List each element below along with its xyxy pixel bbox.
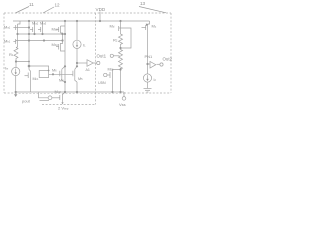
leader line label 13 bbox=[139, 7, 166, 13]
dashed box 12 bottom edge bbox=[42, 104, 96, 106]
dashed box 13 bottom edge bbox=[124, 92, 171, 94]
dashed box 11 left edge bbox=[3, 13, 5, 93]
transistor Ma2 bbox=[30, 21, 35, 33]
resistor R1 bbox=[14, 48, 18, 61]
wire Mc drain bbox=[147, 31, 149, 64]
wire node to CS bbox=[15, 62, 17, 68]
svg-text:I2: I2 bbox=[154, 78, 157, 82]
transistor Mn2 bbox=[60, 92, 65, 104]
svg-text:13: 13 bbox=[140, 1, 146, 6]
svg-text:Mn1: Mn1 bbox=[33, 77, 40, 81]
text labels bbox=[4, 1, 173, 110]
component box bbox=[39, 71, 48, 78]
current source I2 bbox=[143, 74, 151, 82]
wire bus x29 bbox=[28, 21, 30, 70]
wire bus y40.5 bbox=[16, 41, 62, 42]
wire R3 to ground bbox=[120, 68, 122, 92]
transistor M5N bbox=[107, 70, 121, 93]
svg-text:U5N: U5N bbox=[98, 81, 106, 85]
wire bus y34 bbox=[18, 33, 66, 35]
svg-text:I1: I1 bbox=[83, 43, 86, 48]
wire Ma1-Mb1 bbox=[17, 31, 19, 38]
svg-text:M8: M8 bbox=[59, 79, 64, 83]
wire R1 bottom to bus bbox=[16, 61, 29, 62]
transistor Mn1 bbox=[25, 70, 31, 93]
svg-text:M5: M5 bbox=[78, 77, 83, 81]
wire R2 bottom bbox=[120, 45, 122, 50]
svg-text:Mb2: Mb2 bbox=[52, 27, 59, 32]
wire ground rail bbox=[16, 91, 124, 93]
wire CS to ground bbox=[15, 76, 17, 92]
svg-text:Mb3: Mb3 bbox=[52, 42, 59, 47]
transistor Md bbox=[119, 21, 121, 32]
current source I1 bbox=[73, 40, 81, 48]
op-amp buffer A2 bbox=[148, 62, 164, 69]
VDD stem bbox=[99, 12, 101, 22]
resistor R3 bbox=[119, 50, 123, 70]
dashed box 11 bottom-left edge bbox=[4, 92, 15, 94]
svg-text:Md: Md bbox=[110, 24, 115, 29]
svg-text:Ma1: Ma1 bbox=[4, 25, 11, 30]
wire Md drain bbox=[120, 32, 122, 34]
op-amp buffer A1 bbox=[77, 60, 100, 67]
ground arrow left bbox=[15, 92, 17, 94]
wire bus x65 bbox=[64, 21, 66, 92]
dashed box 11 top edge bbox=[4, 12, 171, 14]
wire node y66 bbox=[29, 66, 49, 71]
wire resistor top bbox=[16, 45, 18, 48]
svg-text:Out1: Out1 bbox=[97, 54, 107, 59]
wire bus x77 bbox=[76, 21, 78, 40]
wire Mn2 gate with connector bbox=[39, 93, 60, 101]
node gate connector bbox=[104, 73, 107, 76]
svg-text:Mb1: Mb1 bbox=[4, 39, 11, 44]
node Vss terminal bbox=[122, 92, 126, 100]
svg-text:R1: R1 bbox=[9, 52, 14, 57]
transistor Mb1 bbox=[13, 38, 17, 45]
svg-text:pout: pout bbox=[22, 99, 31, 104]
transistor Ma3 bbox=[38, 21, 43, 33]
wire gate bus y74.3 bbox=[49, 73, 73, 75]
wire I1 down bbox=[76, 48, 78, 66]
svg-text:Out2: Out2 bbox=[163, 56, 173, 61]
transistor Mc bbox=[142, 21, 150, 31]
wire VDD rail bbox=[13, 20, 150, 22]
dashed bottom mid continuation bbox=[15, 92, 124, 94]
transistor M5 bbox=[73, 66, 77, 92]
wire bus y27.5 bbox=[16, 27, 29, 29]
svg-text:M56: M56 bbox=[108, 68, 115, 72]
svg-text:Vss: Vss bbox=[119, 102, 126, 107]
leader line label 11 bbox=[16, 7, 30, 14]
dashed box 13 right edge bbox=[170, 13, 172, 93]
svg-text:M6: M6 bbox=[52, 68, 57, 72]
wire Md gate loop bbox=[119, 28, 131, 48]
junction dots bbox=[15, 20, 149, 93]
node Out1 terminal bbox=[110, 54, 119, 57]
transistor M6 (left NMOS of pair) bbox=[60, 66, 65, 82]
transistor Ma1 bbox=[13, 21, 20, 31]
current source Iin bbox=[12, 67, 20, 75]
svg-text:Mc: Mc bbox=[152, 24, 157, 29]
svg-text:Iin: Iin bbox=[5, 66, 9, 71]
wire I2 to ground bbox=[147, 82, 149, 88]
svg-text:PN1: PN1 bbox=[145, 54, 154, 59]
svg-text:A1: A1 bbox=[86, 68, 90, 72]
transistor Mb3 bbox=[56, 43, 65, 51]
svg-text:2 Vtmp: 2 Vtmp bbox=[58, 105, 69, 110]
svg-text:12: 12 bbox=[55, 3, 61, 8]
ground symbol right bbox=[144, 89, 152, 93]
svg-text:Mn2: Mn2 bbox=[55, 89, 62, 94]
resistor R2 bbox=[119, 34, 123, 45]
svg-text:11: 11 bbox=[29, 2, 34, 7]
leader line label 12 bbox=[43, 7, 54, 13]
svg-text:R2: R2 bbox=[113, 37, 118, 42]
wire to I2 bbox=[147, 64, 149, 74]
svg-text:VDD: VDD bbox=[96, 7, 106, 12]
transistor Mb2 bbox=[56, 26, 65, 44]
dashed box 12 right edge bbox=[95, 13, 97, 105]
